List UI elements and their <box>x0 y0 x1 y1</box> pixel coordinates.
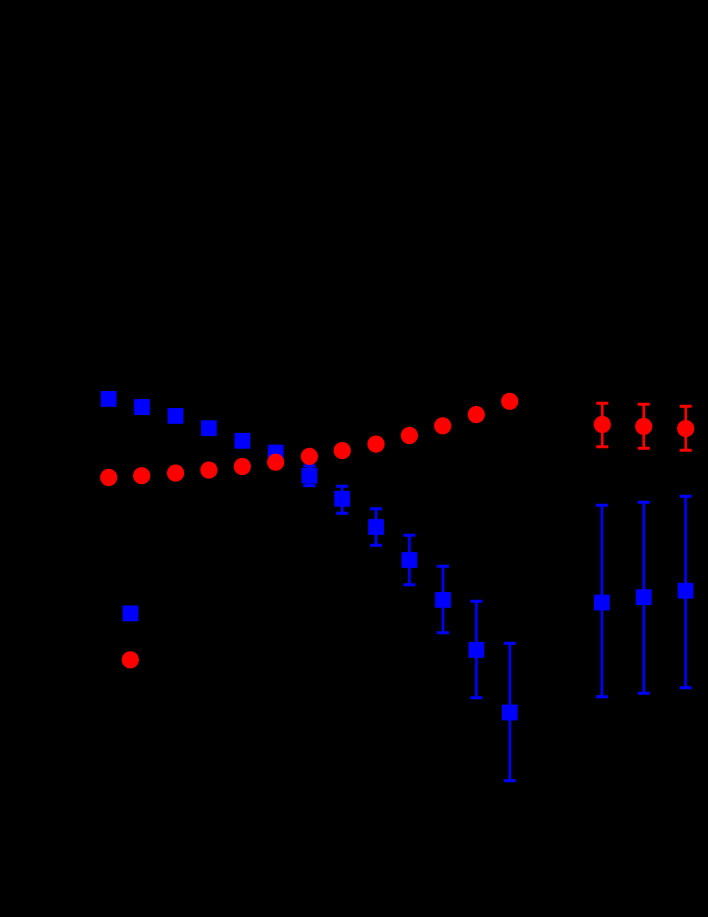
blue legend square <box>123 606 139 622</box>
red error bar verticals <box>602 403 685 450</box>
red error bar caps <box>596 403 691 450</box>
red circles <box>100 469 117 486</box>
blue error bar caps <box>303 466 691 781</box>
red series: circles with error bars <box>100 393 694 669</box>
blue error bar verticals <box>309 464 685 780</box>
blue series: squares with error bars <box>101 391 694 781</box>
red legend circle <box>122 651 139 668</box>
blue squares <box>101 391 117 407</box>
